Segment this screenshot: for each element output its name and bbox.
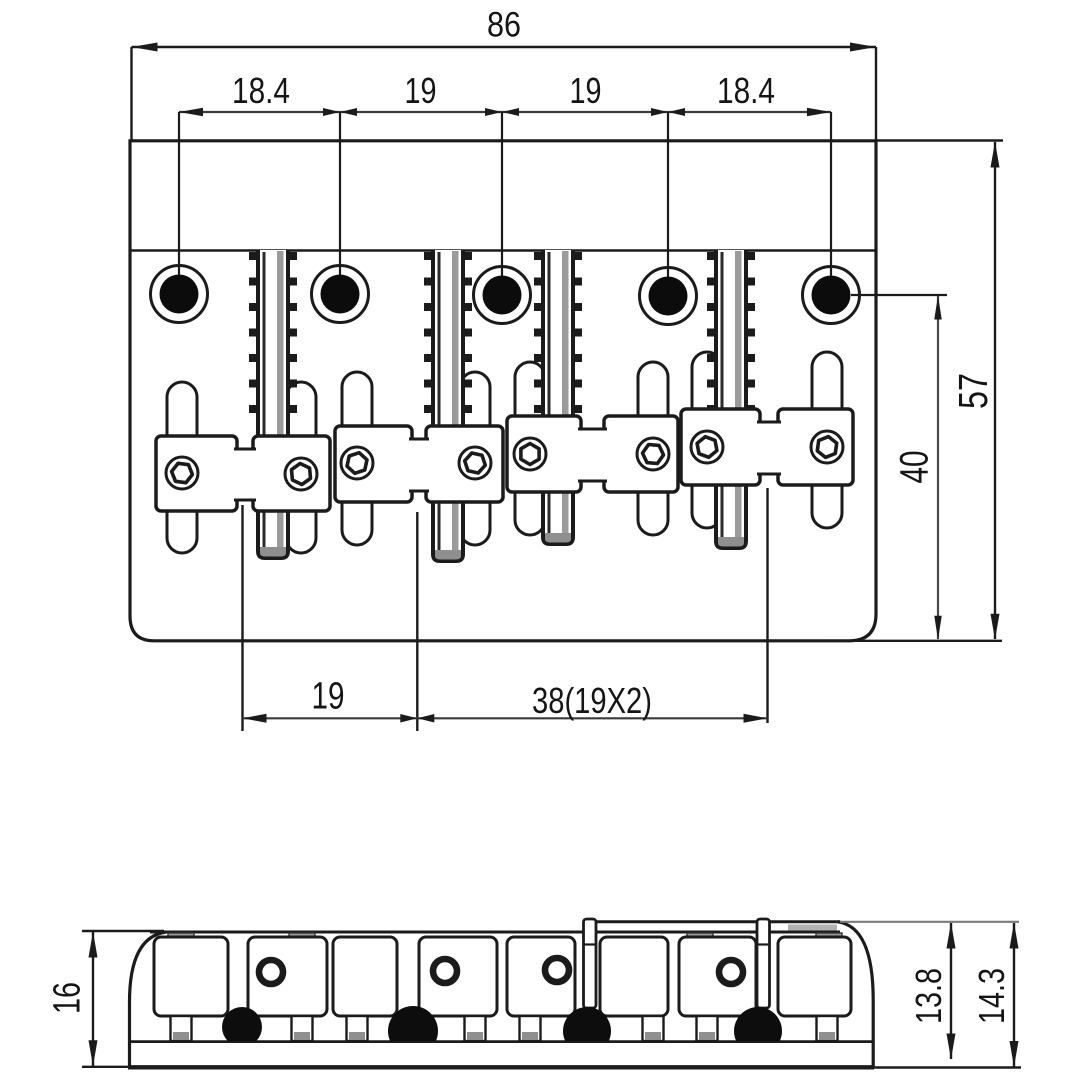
side view: top edge (150, 931, 840, 934)
mounting hole 1 (151, 266, 208, 323)
side view: plate left wall (130, 932, 167, 1068)
top view: bridge base plate outline (130, 141, 876, 641)
dimension 40 (851, 294, 947, 296)
dimension 86 line (132, 46, 877, 48)
side view saddle block 2 (248, 937, 327, 1016)
svg-text:57: 57 (950, 373, 996, 409)
saddle height screw 1 (oval) (167, 382, 197, 553)
side view saddle block 1 (154, 937, 228, 1016)
saddle screw head 2 (285, 458, 317, 490)
dimension 57 (877, 139, 1003, 141)
intonation screw rod 1 (249, 250, 297, 558)
side view saddle block 5 (507, 937, 575, 1016)
side view height screw feet (171, 1016, 192, 1041)
saddle block 2 (253, 436, 330, 511)
svg-text:19: 19 (405, 70, 437, 111)
saddle 2 string groove neck (409, 441, 429, 490)
saddle block 5 (507, 416, 581, 492)
side view saddle block 6 (600, 937, 668, 1016)
svg-text:13.8: 13.8 (908, 968, 949, 1024)
saddle 4 string groove neck (757, 424, 781, 473)
saddle screw head 3 (341, 447, 373, 479)
grey screw tops under top edge (168, 933, 194, 942)
saddle screw head 1 (166, 457, 198, 489)
svg-text:40: 40 (892, 451, 936, 484)
saddle screw head 8 (811, 431, 843, 463)
svg-text:18.4: 18.4 (232, 70, 290, 111)
saddle height screw 7 (oval) (692, 352, 722, 528)
string end posts (584, 919, 597, 1008)
side view: rear lip edge (584, 920, 840, 923)
saddle height screw 8 (oval) (812, 352, 842, 528)
saddle block 4 (426, 426, 503, 502)
saddle height screw 6 (oval) (638, 362, 668, 535)
saddle block 7 (681, 409, 760, 485)
side view: right wall (838, 922, 873, 1067)
intonation screw rod 4 (707, 250, 755, 548)
saddle height screw 5 (oval) (515, 362, 545, 535)
hole extension lines (178, 112, 180, 275)
mounting hole 2 (312, 266, 369, 323)
hole spacing dimension line (179, 111, 831, 113)
dimension 14.3 (1013, 923, 1015, 1067)
side view saddle block 7 (679, 937, 756, 1016)
saddle screw head 7 (691, 431, 723, 463)
dimension 16 (82, 930, 164, 932)
saddle block 8 (778, 409, 853, 485)
svg-text:19: 19 (312, 676, 345, 718)
side view saddle block 4 (419, 937, 497, 1016)
side view: base plate (129, 1040, 874, 1043)
string spacing dimensions 19 and 38 (241, 505, 243, 731)
saddle screw head 5 (514, 438, 546, 470)
saddle screw head 4 (459, 447, 491, 479)
dimension 86 extension lines (130, 47, 132, 140)
svg-text:16: 16 (47, 982, 89, 1014)
side view saddle block 8 (778, 937, 851, 1016)
saddle screw head 6 (637, 438, 669, 470)
mounting hole 3 (474, 267, 531, 324)
saddle height screw 4 (oval) (460, 372, 490, 545)
svg-text:86: 86 (487, 6, 521, 45)
saddle block 3 (335, 426, 412, 502)
saddle 1 string groove neck (234, 451, 256, 499)
mounting hole 4 (640, 268, 697, 325)
intonation screw rod 2 (424, 250, 472, 561)
dimension 13.8 (950, 923, 952, 1059)
extension line from lip to height dims (840, 921, 1019, 923)
saddle block 6 (604, 416, 678, 492)
saddle height screw 3 (oval) (342, 372, 372, 545)
saddle 3 string groove neck (578, 431, 607, 480)
mounting hole 5 (803, 267, 860, 324)
svg-text:14.3: 14.3 (971, 968, 1012, 1024)
svg-text:19: 19 (570, 70, 602, 111)
side view saddle block 3 (333, 937, 397, 1016)
plate bend line (130, 249, 876, 252)
side view screw holes (rings) (259, 960, 283, 984)
saddle block 1 (156, 436, 237, 511)
intonation screw rod 3 (534, 250, 582, 544)
svg-text:18.4: 18.4 (717, 70, 775, 111)
saddle height screw 2 (oval) (286, 382, 316, 553)
svg-text:38(19X2): 38(19X2) (532, 680, 652, 721)
